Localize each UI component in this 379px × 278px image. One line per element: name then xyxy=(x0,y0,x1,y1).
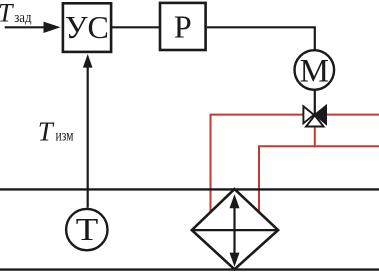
wall line lower xyxy=(0,268,379,270)
svg-text:изм: изм xyxy=(56,127,74,144)
heat exchanger (diamond) xyxy=(192,189,278,269)
wire M to valve xyxy=(314,91,316,115)
label T_zad xyxy=(0,0,32,28)
sensor wire T to US with arrow xyxy=(83,54,93,208)
svg-text:УС: УС xyxy=(65,9,109,45)
svg-text:Р: Р xyxy=(174,8,192,44)
svg-text:Т: Т xyxy=(38,116,55,146)
heat exchanger vertical double arrow xyxy=(230,194,240,266)
wire US to P xyxy=(112,26,159,28)
wall line upper xyxy=(0,188,379,190)
motor M xyxy=(295,50,335,90)
block US (comparator) xyxy=(63,3,111,52)
valve right seat (solid) xyxy=(315,106,326,125)
pipe red: valve right outlet xyxy=(326,114,379,116)
valve left seat xyxy=(303,106,313,123)
sensor T xyxy=(66,209,107,250)
svg-text:зад: зад xyxy=(14,10,32,26)
label T_izm xyxy=(38,116,74,146)
svg-text:Т: Т xyxy=(76,211,99,247)
heat exchanger horizontal line xyxy=(192,229,278,231)
pipe red: valve left to heat exchanger xyxy=(211,115,305,213)
pipe red: lower return pipe to heat exchanger xyxy=(259,146,379,212)
block P (regulator) xyxy=(160,3,206,50)
svg-text:Т: Т xyxy=(0,0,14,28)
svg-text:М: М xyxy=(300,53,329,89)
valve bottom seat xyxy=(306,115,324,126)
wire arrow Tzad into US xyxy=(5,22,61,33)
pipe red: valve bottom to lower pipe xyxy=(314,126,316,147)
wire P to M xyxy=(207,27,315,50)
